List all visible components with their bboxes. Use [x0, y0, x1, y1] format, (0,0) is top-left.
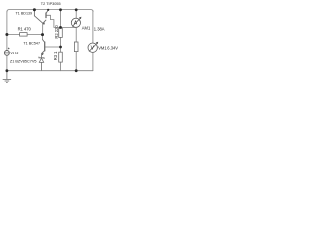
junction node dots — [5, 8, 77, 72]
wire ammeter/load branch — [75, 10, 77, 71]
voltmeter VM1 — [88, 42, 98, 53]
ground — [3, 71, 11, 83]
transistor T2 TIP3055 — [43, 10, 48, 23]
transistor T1 BC547 emitter arrowhead — [41, 53, 43, 56]
wire output line T2 emitter to ammeter branch — [46, 15, 76, 27]
wire left branch — [6, 11, 8, 71]
resistor R2 220 — [59, 28, 63, 37]
ammeter AM1 — [71, 17, 81, 28]
wire R2/R3 column — [60, 10, 62, 71]
svg-text:R1 470: R1 470 — [18, 27, 32, 32]
svg-text:6.34V: 6.34V — [107, 46, 118, 51]
svg-text:1.38A: 1.38A — [94, 26, 105, 31]
svg-text:Z1 BZV85C7V5: Z1 BZV85C7V5 — [10, 59, 37, 63]
wire BC547 base to R2/R3 junction — [45, 46, 61, 48]
wire right branch — [92, 11, 94, 71]
svg-text:R3 1: R3 1 — [53, 51, 58, 60]
resistor load — [74, 42, 78, 52]
wire center feedback column — [42, 23, 44, 39]
svg-text:T1 BD139: T1 BD139 — [16, 12, 33, 16]
svg-text:VM1: VM1 — [98, 46, 107, 51]
wire bottom rail — [7, 70, 93, 72]
wire R1 branch — [7, 34, 43, 36]
svg-text:T1 BC547: T1 BC547 — [23, 42, 40, 46]
transistor T1 BC547 — [42, 40, 45, 54]
svg-text:T2 TIP3055: T2 TIP3055 — [41, 2, 61, 6]
zener diode Z1 — [39, 54, 44, 71]
voltage source V1 — [5, 48, 10, 56]
svg-text:R2 220: R2 220 — [54, 25, 59, 39]
transistor T2 emitter arrowhead — [43, 22, 45, 25]
resistor R3 — [59, 52, 63, 62]
svg-text:AM1: AM1 — [82, 26, 91, 31]
resistor R1 470 — [20, 33, 28, 37]
svg-text:V1 12: V1 12 — [11, 51, 19, 55]
transistor T1 BD139 — [34, 10, 43, 23]
wire top rail — [7, 10, 93, 12]
